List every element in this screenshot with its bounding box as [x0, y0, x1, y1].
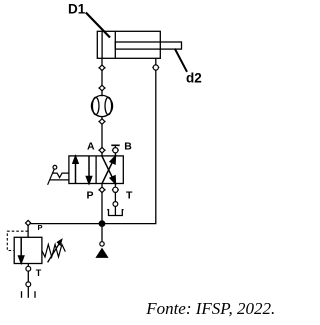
node cylinder left port	[98, 65, 105, 71]
wire port P stem	[101, 184, 103, 188]
coupling node lower	[98, 119, 105, 125]
svg-text:P: P	[87, 190, 94, 202]
svg-text:A: A	[87, 141, 95, 153]
hand lever actuator	[48, 165, 69, 184]
node valve port T	[112, 187, 119, 192]
relief valve adjustment arrow	[48, 240, 62, 263]
svg-text:B: B	[124, 141, 132, 153]
flow meter	[91, 95, 112, 116]
wire T down	[114, 192, 116, 201]
node valve port P	[98, 187, 105, 193]
wire node to tank	[114, 206, 116, 215]
directional valve 4/2 body	[69, 156, 123, 184]
tank at bottom	[22, 291, 36, 298]
plug on port B	[111, 145, 119, 147]
svg-text:P: P	[38, 223, 43, 232]
wire relief T stem	[27, 264, 29, 267]
node on T drain line	[113, 202, 118, 207]
node valve port A	[98, 147, 105, 153]
label d2	[175, 49, 202, 86]
wire coupling to valve port A	[101, 124, 103, 148]
relief valve body	[14, 237, 42, 263]
svg-text:Fonte: IFSP, 2022.: Fonte: IFSP, 2022.	[145, 299, 275, 318]
valve left position arrows	[73, 156, 92, 183]
svg-text:D1: D1	[68, 1, 86, 16]
wire P down to junction	[101, 192, 103, 223]
valve right position crossed arrows	[102, 156, 115, 183]
cylinder D1	[97, 31, 181, 58]
relief valve pilot dashed line	[7, 231, 28, 250]
wire port B stem	[114, 153, 116, 156]
relief valve flow arrow	[19, 237, 24, 263]
svg-text:d2: d2	[186, 71, 202, 86]
node cylinder right port	[152, 65, 159, 70]
tank under valve T	[107, 210, 123, 216]
pressure source	[95, 248, 108, 258]
wire coupling to flow meter	[101, 91, 103, 97]
node above bottom tank	[26, 282, 31, 287]
wire relief T down	[27, 271, 29, 282]
wire left line: port to coupling	[101, 70, 103, 85]
wire right line down to junction	[102, 70, 156, 224]
junction node	[99, 220, 106, 227]
wire relief P stem	[27, 225, 29, 237]
node relief valve P	[26, 220, 31, 225]
coupling node upper	[98, 85, 105, 91]
node relief port T	[26, 266, 31, 271]
node above source	[100, 242, 104, 246]
node valve port B	[112, 148, 119, 153]
wire cylinder right port	[155, 58, 157, 65]
label D1	[68, 1, 110, 37]
svg-text:T: T	[36, 268, 42, 278]
svg-text:T: T	[126, 190, 133, 202]
wire flow meter to coupling	[101, 116, 103, 119]
wire port T stem	[114, 184, 116, 188]
wire port A stem	[101, 153, 103, 156]
wire node to bottom tank	[27, 287, 29, 298]
relief valve spring	[42, 244, 65, 257]
wire junction to relief valve	[30, 223, 102, 225]
wire cylinder left port	[101, 58, 103, 65]
wire junction down to source	[101, 227, 103, 242]
